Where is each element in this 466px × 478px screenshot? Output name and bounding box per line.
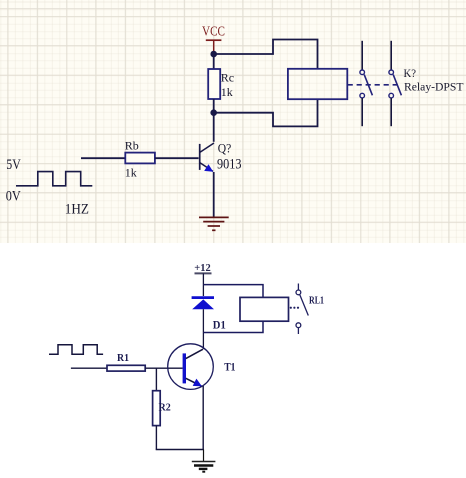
label RL1 xyxy=(309,295,324,306)
svg-text:Rb: Rb xyxy=(125,138,139,152)
actuator dots xyxy=(290,307,299,309)
relay contact RL1 xyxy=(296,284,308,335)
square wave (top schematic) xyxy=(16,172,92,186)
svg-text:RL1: RL1 xyxy=(309,295,324,306)
diode D1 xyxy=(192,298,226,332)
dashed actuator line xyxy=(348,84,398,86)
label Relay-DPST xyxy=(404,82,464,94)
emitter wire down xyxy=(202,386,204,450)
label Q? xyxy=(218,140,232,155)
transistor Q? 9013 xyxy=(200,143,214,172)
svg-text:+12: +12 xyxy=(194,263,211,274)
wire Rb to base xyxy=(155,157,199,159)
wire top rail to coil xyxy=(203,285,263,298)
label 5V xyxy=(6,157,21,173)
resistor Rb xyxy=(125,138,155,179)
wire R1 to base xyxy=(145,367,182,369)
svg-text:R2: R2 xyxy=(159,403,171,414)
relay switch contact 1 xyxy=(360,41,372,126)
wire input to R1 xyxy=(71,367,107,369)
svg-text:K?: K? xyxy=(404,68,417,80)
svg-text:1k: 1k xyxy=(221,85,233,99)
input wire to Rb xyxy=(81,157,125,159)
svg-text:0V: 0V xyxy=(6,188,21,204)
relay coil RL1 xyxy=(240,297,289,321)
ground (bottom schematic) xyxy=(192,450,216,472)
label 0V xyxy=(6,188,21,204)
label 9013 xyxy=(217,156,242,172)
wire VCC node to Rc top xyxy=(213,54,215,70)
relay switch contact 2 xyxy=(389,41,401,126)
svg-text:VCC: VCC xyxy=(202,23,225,38)
wire diode to collector xyxy=(202,309,204,349)
wire collector node to transistor xyxy=(213,113,215,142)
wire VCC node to relay coil top xyxy=(214,40,318,69)
svg-text:D1: D1 xyxy=(213,319,226,331)
power port VCC xyxy=(202,23,225,54)
junction node collector xyxy=(210,109,217,116)
square wave (bottom schematic) xyxy=(49,345,103,355)
svg-text:1k: 1k xyxy=(125,165,137,179)
emitter wire to ground xyxy=(213,172,215,217)
resistor R1 xyxy=(107,353,145,371)
label K? xyxy=(404,68,417,80)
power port +12 xyxy=(194,263,211,296)
relay coil K? xyxy=(288,69,347,99)
svg-text:1HZ: 1HZ xyxy=(65,202,89,218)
wire collector node to relay coil bottom xyxy=(214,99,318,126)
svg-text:9013: 9013 xyxy=(217,156,242,172)
svg-text:Rc: Rc xyxy=(221,71,234,85)
resistor Rc xyxy=(208,69,234,99)
svg-text:T1: T1 xyxy=(224,360,235,374)
svg-text:Q?: Q? xyxy=(218,140,232,155)
wire coil bottom rail xyxy=(203,321,263,332)
ground (top schematic) xyxy=(199,217,229,230)
bottom rail wire xyxy=(156,449,204,451)
label 1HZ xyxy=(65,202,89,218)
svg-text:R1: R1 xyxy=(117,353,129,364)
junction node VCC/Rc xyxy=(210,51,217,58)
svg-text:Relay-DPST: Relay-DPST xyxy=(404,82,464,94)
wire base junction to R2 xyxy=(155,368,157,391)
transistor T1 xyxy=(168,344,214,390)
resistor R2 xyxy=(153,391,171,426)
svg-text:5V: 5V xyxy=(6,157,21,173)
wire Rc bottom to collector node xyxy=(213,99,215,113)
label T1 xyxy=(224,360,235,374)
wire R2 to bottom rail xyxy=(155,426,157,450)
